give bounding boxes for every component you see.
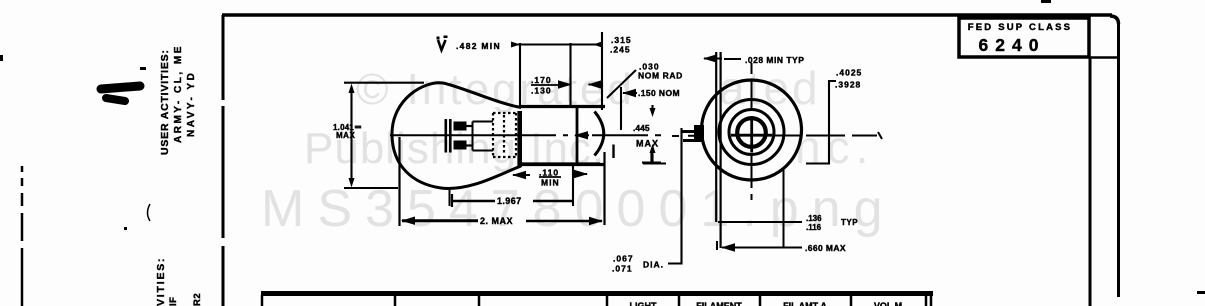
dim line .136/.116 TYP: [718, 221, 802, 223]
svg-text:FED SUP CLASS: FED SUP CLASS: [968, 22, 1072, 33]
stem tube top: [473, 121, 494, 123]
svg-text:.116: .116: [806, 223, 822, 232]
cross vertical: [750, 116, 753, 153]
svg-text:VOL M: VOL M: [874, 301, 902, 306]
svg-text:.067: .067: [613, 254, 634, 264]
bulb outline: [392, 83, 521, 189]
svg-text:6240: 6240: [979, 35, 1046, 55]
centerline right tick: [878, 132, 882, 139]
svg-text:.170: .170: [531, 75, 552, 85]
pin dark patch: [694, 125, 704, 142]
small dot mark: [124, 227, 127, 230]
svg-text:.110: .110: [539, 168, 559, 178]
dimension .482 MIN: [511, 32, 602, 110]
base shell left edge thick: [519, 111, 522, 167]
extension line x573: [572, 165, 574, 206]
centerline arrowhead left: [575, 134, 589, 136]
svg-text:LIGHT: LIGHT: [630, 301, 657, 306]
extension line x604: [603, 152, 605, 225]
dim line .660 MAX: [722, 247, 802, 249]
svg-text:NOM RAD: NOM RAD: [638, 71, 683, 81]
svg-text:TYP: TYP: [841, 218, 858, 227]
dimension 1.041 MAX: [344, 83, 424, 188]
filament blob upper: [454, 122, 467, 131]
circle mid inner: [729, 110, 774, 155]
frame top-right rounded corner: [1110, 16, 1119, 24]
svg-text:USER ACTIVITIES:: USER ACTIVITIES:: [159, 49, 171, 155]
svg-text:MAX: MAX: [336, 131, 355, 140]
tick near tip bottom: [612, 145, 614, 159]
svg-text:R2: R2: [192, 293, 203, 306]
small paren mark: [148, 204, 151, 221]
small line left of circle: [642, 162, 661, 164]
svg-text:FILAMENT: FILAMENT: [696, 301, 742, 306]
.028 MIN TYP label and leader: [724, 58, 741, 60]
dimension .445 MAX vertical: [651, 105, 653, 112]
filament connector top: [466, 125, 473, 127]
stem tube bottom: [473, 150, 494, 152]
svg-text:MAX: MAX: [636, 139, 659, 149]
svg-text:ARMY- CL, ME: ARMY- CL, ME: [173, 44, 184, 143]
svg-text:.445: .445: [633, 123, 650, 133]
outer circle: [702, 80, 802, 180]
frame right border: [1117, 22, 1120, 297]
svg-text:.028 MIN TYP: .028 MIN TYP: [745, 55, 804, 65]
filament connector bottom: [466, 144, 473, 146]
small dash mark: [140, 67, 146, 70]
svg-text:.136: .136: [806, 214, 822, 223]
inner right vertical line: [1089, 58, 1092, 306]
svg-text:VITIES:: VITIES:: [155, 257, 167, 306]
svg-text:MIN: MIN: [541, 178, 560, 188]
svg-text:.130: .130: [531, 86, 552, 96]
user activities vertical text: [155, 44, 203, 306]
svg-text:NAVY- YD: NAVY- YD: [186, 71, 197, 137]
svg-text:DIA.: DIA.: [643, 260, 664, 270]
glyph before .482: [438, 40, 446, 50]
extension line near tip: [620, 87, 622, 130]
left edge tick: [0, 55, 3, 61]
base shell outline: [519, 107, 605, 168]
svg-text:2. MAX: 2. MAX: [480, 216, 513, 226]
filament post bar 1: [445, 119, 448, 153]
svg-text:.245: .245: [610, 45, 631, 55]
svg-text:.315: .315: [611, 35, 632, 45]
bayonet pin bottom line: [683, 139, 703, 142]
svg-text:FIL AMT A: FIL AMT A: [783, 301, 827, 306]
extension line x399: [398, 137, 400, 226]
cross horizontal: [731, 134, 772, 137]
fed sup class box: [959, 18, 1089, 57]
vertical centerline: [751, 63, 753, 200]
bayonet pin top line: [681, 130, 703, 133]
tangent pair lines for .028: [715, 52, 717, 222]
shell inner vertical: [576, 107, 579, 164]
svg-text:.3928: .3928: [835, 80, 861, 90]
circle mid outer: [719, 100, 784, 165]
horizontal centerline: [672, 135, 877, 138]
filament post bar 2: [449, 119, 452, 153]
tick above frame: [1041, 0, 1051, 3]
svg-text:.660 MAX: .660 MAX: [805, 243, 846, 253]
frame left border: [222, 15, 225, 306]
circle inner bold: [737, 118, 766, 147]
svg-text:.071: .071: [612, 264, 633, 274]
filament blob lower: [454, 141, 467, 150]
svg-text:.482 MIN: .482 MIN: [456, 41, 501, 51]
center line side view: [390, 134, 679, 137]
svg-text:1.967: 1.967: [497, 196, 522, 206]
stem tube left edge: [472, 122, 474, 151]
svg-text:.150 NOM: .150 NOM: [638, 88, 680, 98]
table header texts (cut off): [630, 301, 903, 306]
bottom dim structure: vertical x783: [783, 168, 785, 248]
box to border connector: [1090, 56, 1117, 59]
svg-text:nc.: nc.: [795, 121, 874, 173]
svg-text:IF: IF: [168, 297, 179, 306]
extension from bulb bottom: [449, 189, 451, 206]
pen mark: [101, 86, 140, 89]
left dashed vertical line: [21, 166, 24, 306]
frame top border: [222, 13, 1112, 17]
knurl section dotted: [493, 113, 516, 157]
tip contact arc: [595, 112, 604, 156]
svg-text:.4025: .4025: [836, 68, 862, 78]
